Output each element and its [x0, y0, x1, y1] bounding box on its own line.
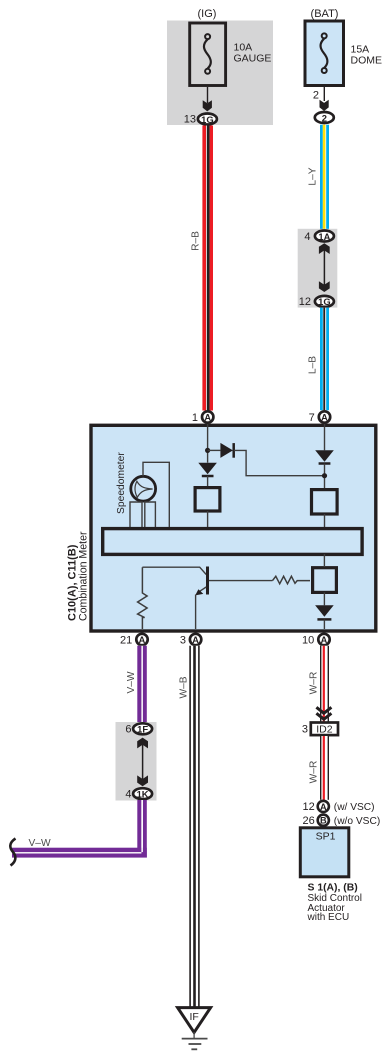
svg-text:1G: 1G	[201, 114, 214, 125]
speedometer frame wire	[143, 462, 169, 527]
junction connector ID2 (pin 3)	[302, 723, 338, 736]
skid control actuator box SP1	[300, 828, 349, 877]
svg-text:2: 2	[313, 89, 319, 101]
svg-text:W–R: W–R	[309, 761, 320, 784]
junction block gray panel (1F/1K)	[116, 722, 157, 801]
pin 10 (A)	[302, 634, 330, 647]
svg-text:V–W: V–W	[126, 671, 137, 693]
bus bar	[103, 529, 362, 555]
svg-text:1: 1	[192, 412, 198, 424]
label (BAT)	[311, 8, 339, 20]
label C10(A), C11(B) Combination Meter	[67, 531, 90, 621]
ground triangle IF	[178, 1008, 211, 1033]
label L-Y	[308, 167, 319, 185]
wire break squiggle	[10, 839, 15, 866]
svg-text:S 1(A), (B): S 1(A), (B)	[308, 882, 358, 893]
svg-text:DOME: DOME	[351, 54, 383, 66]
wire L-Y (blue with yellow stripe)	[320, 125, 329, 230]
inter-connector arrows 1F/1K	[137, 738, 148, 787]
wire junction to diode D1	[208, 449, 221, 451]
svg-text:A: A	[321, 635, 328, 645]
svg-text:with ECU: with ECU	[307, 912, 350, 923]
svg-text:SP1: SP1	[316, 831, 336, 843]
svg-text:(w/ VSC): (w/ VSC)	[334, 802, 375, 813]
svg-text:1K: 1K	[137, 789, 149, 800]
svg-text:21: 21	[120, 634, 132, 646]
svg-text:W–B: W–B	[179, 676, 190, 698]
label 2 (fuse pin)	[313, 89, 319, 101]
wire L-B (blue with black stripe)	[320, 308, 329, 411]
junction node pin1	[205, 448, 210, 453]
svg-text:A: A	[204, 413, 211, 423]
label R-B	[191, 231, 202, 251]
pin 7 (A)	[309, 411, 331, 424]
svg-text:2: 2	[322, 112, 327, 123]
svg-text:13: 13	[184, 114, 196, 126]
svg-text:(w/o VSC): (w/o VSC)	[334, 816, 380, 827]
wire V-W upper (violet with white stripe)	[137, 646, 147, 723]
svg-text:3: 3	[302, 724, 308, 736]
wire fuse BAT to connector 2 with arrow	[320, 86, 329, 112]
shield chevron arrows	[316, 707, 331, 719]
connector 1A (pin 4)	[304, 231, 334, 243]
connector 1K (pin 4)	[125, 788, 152, 800]
svg-text:Combination Meter: Combination Meter	[78, 531, 90, 621]
transistor Q1	[142, 567, 272, 630]
label 10A GAUGE	[234, 42, 272, 65]
fuse panel gray (IG block)	[167, 21, 273, 126]
svg-text:12: 12	[303, 801, 315, 813]
speedometer label	[116, 452, 127, 514]
junction node right branch	[322, 473, 327, 478]
svg-text:W–R: W–R	[309, 672, 320, 695]
label W-R lower	[309, 761, 320, 784]
label W-R upper	[309, 672, 320, 695]
fuse 10A GAUGE	[190, 23, 226, 86]
label V-W vertical	[126, 671, 137, 693]
resistor R1 (vertical)	[138, 567, 148, 629]
wire V-W lower with corner	[12, 800, 147, 858]
svg-text:6: 6	[125, 724, 131, 736]
svg-text:3: 3	[180, 634, 186, 646]
driver square (lower right)	[313, 554, 337, 605]
inter-connector arrows 1A/1G	[319, 243, 330, 292]
svg-text:ID2: ID2	[316, 724, 333, 736]
svg-text:(IG): (IG)	[198, 8, 217, 20]
svg-text:1G: 1G	[318, 296, 331, 307]
diode D4 (down, lower right)	[315, 605, 334, 629]
wire W-R upper (white with red stripe)	[320, 646, 329, 722]
fuse 15A DOME	[305, 21, 344, 86]
wire fuse IG to connector 1G with arrow	[203, 87, 212, 111]
svg-text:(BAT): (BAT)	[311, 8, 339, 20]
svg-text:V–W: V–W	[29, 838, 51, 849]
svg-text:Speedometer: Speedometer	[116, 452, 127, 514]
wire D1 to right branch	[234, 450, 322, 475]
speedometer gauge	[131, 476, 156, 501]
svg-text:26: 26	[303, 815, 315, 827]
svg-text:L–Y: L–Y	[308, 167, 319, 185]
wire pin7 down	[324, 424, 326, 450]
wire R-B (red with black stripe)	[202, 126, 213, 411]
svg-text:4: 4	[304, 231, 310, 243]
svg-text:10: 10	[302, 634, 314, 646]
wire W-B (white with black stripe)	[189, 646, 199, 1008]
svg-text:B: B	[320, 816, 327, 826]
meter coil left square	[195, 488, 220, 527]
pin 1 (A)	[192, 411, 214, 424]
svg-text:A: A	[192, 635, 199, 645]
label (IG)	[198, 8, 217, 20]
label S 1(A),(B) Skid Control Actuator with ECU	[307, 882, 362, 923]
svg-text:A: A	[139, 635, 146, 645]
pin B (26, w/o VSC)	[303, 815, 381, 827]
label L-B	[308, 356, 319, 374]
svg-text:4: 4	[125, 789, 131, 801]
meter coil right square	[312, 490, 338, 527]
svg-text:GAUGE: GAUGE	[234, 53, 272, 65]
svg-text:A: A	[321, 413, 328, 423]
wire pin1 down	[207, 424, 209, 463]
svg-text:IF: IF	[190, 1011, 199, 1023]
svg-text:A: A	[320, 802, 327, 812]
svg-text:L–B: L–B	[308, 356, 319, 374]
svg-text:12: 12	[299, 296, 311, 308]
svg-text:R–B: R–B	[191, 231, 202, 251]
wire W-R lower	[320, 736, 329, 800]
connector 1G (pin 12)	[299, 296, 334, 308]
pin 3 (A)	[180, 634, 201, 647]
diode D1 (right pointing)	[220, 443, 233, 458]
connector 1G (pin 13)	[184, 114, 217, 126]
ground symbol	[182, 1032, 208, 1049]
diode D2 (down, left branch)	[198, 463, 217, 487]
connector 1F (pin 6)	[125, 723, 152, 735]
svg-text:7: 7	[309, 412, 315, 424]
pin 21 (A)	[120, 634, 148, 647]
diode D3 (down, right branch)	[315, 450, 334, 488]
svg-text:1A: 1A	[318, 231, 330, 242]
resistor R2 (horizontal)	[273, 576, 311, 584]
pin A (12, w/ VSC)	[303, 801, 375, 813]
combination meter box C10(A) C11(B)	[91, 425, 376, 631]
junction block gray panel (1A/1G)	[298, 229, 338, 308]
label 15A DOME	[351, 44, 383, 67]
speedometer legs	[130, 502, 155, 527]
svg-text:1F: 1F	[137, 724, 148, 735]
label V-W horizontal	[29, 838, 51, 849]
connector 2	[315, 112, 334, 123]
label W-B	[179, 676, 190, 698]
